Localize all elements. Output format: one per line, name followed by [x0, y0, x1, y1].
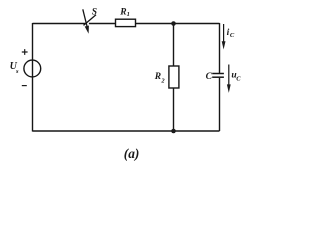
svg-text:2: 2: [160, 78, 165, 85]
svg-text:S: S: [92, 7, 97, 17]
svg-text:C: C: [230, 32, 235, 39]
svg-text:R: R: [154, 72, 161, 82]
svg-text:(a): (a): [124, 146, 140, 161]
svg-text:1: 1: [127, 11, 130, 18]
svg-text:R: R: [119, 7, 126, 17]
svg-text:C: C: [236, 76, 241, 83]
svg-text:C: C: [206, 72, 213, 82]
svg-text:s: s: [15, 68, 19, 75]
